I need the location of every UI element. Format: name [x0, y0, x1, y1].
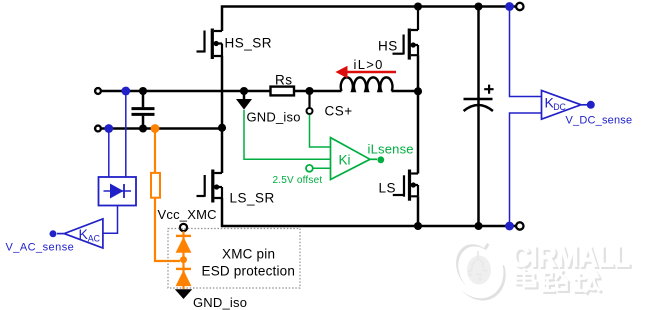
wire DC link vertical	[477, 7, 480, 227]
svg-text:V_DC_sense: V_DC_sense	[566, 115, 633, 127]
capacitor input filter	[132, 91, 155, 129]
wire HS_SR source to neutral	[221, 56, 224, 129]
svg-text:LS_SR: LS_SR	[230, 191, 275, 206]
svg-text:DC: DC	[553, 102, 566, 112]
wire orange neutral to divider	[154, 129, 156, 173]
inductor L	[341, 77, 393, 91]
node neutral blue tap	[104, 124, 113, 133]
capacitor DC link polarized	[464, 85, 494, 111]
ground GND_iso bottom arrow	[175, 289, 192, 299]
svg-text:Vcc_XMC: Vcc_XMC	[158, 207, 217, 222]
wire top rail	[222, 7, 516, 32]
pin CS+ open circle	[307, 108, 313, 114]
arrow iL>0 red	[335, 66, 396, 79]
svg-text:XMC pin: XMC pin	[222, 247, 275, 262]
wire K_AC output	[57, 233, 64, 235]
terminal DC- output	[516, 222, 523, 229]
ground GND_iso top	[236, 87, 252, 110]
svg-text:V_AC_sense: V_AC_sense	[6, 242, 75, 254]
svg-text:CS+: CS+	[325, 104, 353, 119]
svg-text:iLsense: iLsense	[368, 142, 414, 157]
mosfet LS_SR	[197, 129, 223, 203]
wire V_DC sense lower blue	[510, 113, 542, 226]
node DC+ blue tap	[505, 2, 514, 11]
svg-text:Rs: Rs	[275, 73, 293, 88]
svg-text:AC: AC	[88, 234, 101, 244]
node HS drain junction on top rail	[414, 2, 422, 10]
wire live to AC sense blue	[125, 91, 127, 177]
node cap bottom junction	[139, 124, 147, 132]
terminal DC+ output	[516, 3, 523, 10]
node LS source junction on bottom rail	[414, 222, 422, 230]
node neutral orange tap	[151, 124, 160, 133]
wire LS source to bottom rail	[417, 196, 420, 226]
node CS+ junction	[305, 87, 313, 95]
wire neutral rail	[102, 127, 222, 130]
wire rectifier to K_AC	[103, 206, 118, 234]
node cap top junction on top rail	[474, 2, 482, 10]
svg-text:HS: HS	[378, 39, 398, 54]
wire offset to Ki	[313, 167, 331, 169]
node fast-leg midpoint junction	[414, 87, 422, 95]
node V_AC_sense output dot	[50, 230, 57, 237]
op-amp K_DC	[542, 91, 582, 120]
box XMC pin ESD protection dashed	[168, 229, 300, 289]
node live blue tap	[121, 87, 130, 96]
node iLsense output dot	[377, 156, 384, 163]
terminal AC live input	[95, 88, 101, 94]
svg-text:ESD protection: ESD protection	[202, 264, 296, 279]
node DC- blue tap	[505, 222, 514, 231]
pin Vcc_XMC open circle	[180, 224, 187, 231]
wire ESD vertical orange	[182, 231, 184, 289]
node V_DC_sense output dot	[587, 101, 595, 109]
node ESD midpoint orange	[180, 256, 187, 263]
wire green CS+ to Ki	[310, 115, 331, 148]
svg-text:iL>0: iL>0	[354, 57, 384, 72]
node cap top junction	[139, 87, 147, 95]
wire live rail	[102, 90, 418, 93]
pin 2.5V offset open circle	[306, 165, 313, 172]
op-amp Ki	[331, 138, 371, 180]
wire Ki output	[370, 158, 377, 160]
wire green GND_iso to Ki	[244, 110, 331, 159]
wire K_DC output	[581, 104, 587, 106]
svg-text:2.5V offset: 2.5V offset	[273, 175, 323, 186]
wire V_DC sense upper blue	[510, 7, 542, 97]
svg-text:GND_iso: GND_iso	[247, 110, 301, 125]
svg-text:LS: LS	[379, 181, 397, 196]
resistor divider orange	[151, 173, 160, 198]
wire HS source to midpoint	[417, 55, 420, 91]
node cap bottom junction on bottom rail	[474, 222, 482, 230]
svg-text:HS_SR: HS_SR	[225, 36, 273, 51]
wire neutral to AC sense blue	[108, 129, 110, 178]
mosfet HS	[393, 7, 419, 60]
mosfet HS_SR	[197, 29, 223, 60]
terminal AC neutral input	[95, 126, 101, 132]
svg-text:GND_iso: GND_iso	[193, 295, 247, 310]
mosfet LS	[393, 92, 418, 201]
svg-text:Ki: Ki	[339, 153, 351, 168]
wire orange divider to ESD node	[155, 198, 180, 261]
wire bottom rail	[222, 198, 516, 226]
diode ESD upper	[176, 236, 192, 253]
node slow-leg midpoint junction	[218, 124, 226, 132]
rectifier block AC sense	[99, 177, 137, 206]
wire CS+ stub	[308, 91, 310, 107]
op-amp K_AC	[64, 219, 103, 248]
resistor Rs	[271, 87, 295, 96]
diode ESD lower	[176, 269, 192, 286]
